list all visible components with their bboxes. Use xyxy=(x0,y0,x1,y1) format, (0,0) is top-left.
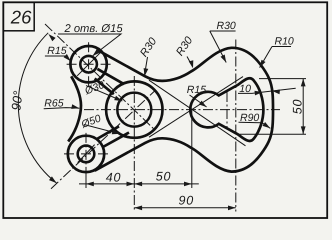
part outline: top edge, head, bottom edge xyxy=(95,48,273,172)
R65 left concave arc xyxy=(68,76,81,141)
bottom-left hole D15 xyxy=(78,146,95,163)
bottom-left boss R15 xyxy=(68,136,104,172)
top boss crosshair xyxy=(67,42,111,86)
svg-text:R30: R30 xyxy=(217,20,236,32)
extension lines right 50 dim xyxy=(238,79,306,135)
svg-text:R15: R15 xyxy=(187,84,206,96)
svg-text:R10: R10 xyxy=(275,36,294,48)
svg-text:40: 40 xyxy=(106,170,122,184)
horizontal centerline xyxy=(84,109,280,111)
dim line 40/50 xyxy=(79,183,199,185)
bottom boss perpendicular diagonal xyxy=(78,145,95,163)
svg-text:90°: 90° xyxy=(8,90,25,111)
construction tangent line upper-left to lower-right xyxy=(149,80,246,146)
extension line V point x=191.8 xyxy=(191,111,193,189)
extension line bottom-left boss xyxy=(85,173,87,189)
90 degree dimension arc xyxy=(18,33,56,183)
dim line 90 xyxy=(134,207,236,209)
top-left boss R15 xyxy=(70,46,106,82)
fork R15 center vertical centerline xyxy=(226,92,228,127)
task number box xyxy=(3,2,34,31)
top-left hole D15 xyxy=(80,56,97,73)
bottom boss crosshair xyxy=(64,133,108,188)
hub outer D50 xyxy=(106,81,162,137)
fork slot cutout: R15 left, straight edges, R90 right xyxy=(190,78,263,141)
svg-text:R15: R15 xyxy=(47,45,66,57)
construction tangent line lower-left to upper-right xyxy=(149,77,243,138)
upper arm line bottom boss to hub xyxy=(96,126,119,139)
vertical centerline main hub xyxy=(133,76,135,211)
svg-text:90: 90 xyxy=(179,193,195,207)
radial centerline through top boss xyxy=(45,24,154,129)
svg-text:2 отв. Ø15: 2 отв. Ø15 xyxy=(64,23,124,35)
radial centerline through bottom boss xyxy=(51,91,155,189)
dim line vertical 50 xyxy=(302,79,304,135)
hub inner D30 xyxy=(117,93,151,127)
upper arm line top boss to hub xyxy=(97,69,124,84)
svg-text:50: 50 xyxy=(290,99,304,115)
svg-text:26: 26 xyxy=(10,6,32,27)
top boss perpendicular diagonal xyxy=(77,53,100,76)
svg-text:50: 50 xyxy=(156,170,172,184)
lower arm line bottom boss to hub xyxy=(102,133,129,148)
fork vertical centerline xyxy=(235,40,237,212)
lower arm line top boss to hub xyxy=(95,79,114,95)
